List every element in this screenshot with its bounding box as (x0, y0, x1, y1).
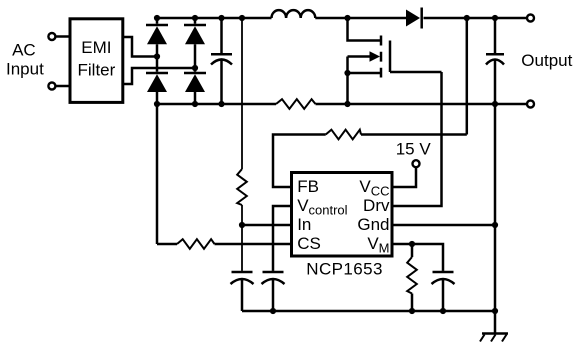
svg-text:NCP1653: NCP1653 (306, 260, 383, 279)
svg-text:In: In (297, 215, 311, 234)
svg-text:15 V: 15 V (396, 139, 432, 158)
svg-text:CS: CS (297, 234, 321, 253)
svg-text:Filter: Filter (78, 60, 116, 79)
svg-text:AC: AC (12, 40, 36, 59)
svg-text:Gnd: Gnd (357, 215, 389, 234)
svg-text:Input: Input (6, 59, 44, 78)
svg-text:EMI: EMI (81, 38, 111, 57)
svg-text:FB: FB (297, 177, 319, 196)
svg-text:Output: Output (521, 51, 572, 70)
svg-text:Drv: Drv (363, 196, 390, 215)
